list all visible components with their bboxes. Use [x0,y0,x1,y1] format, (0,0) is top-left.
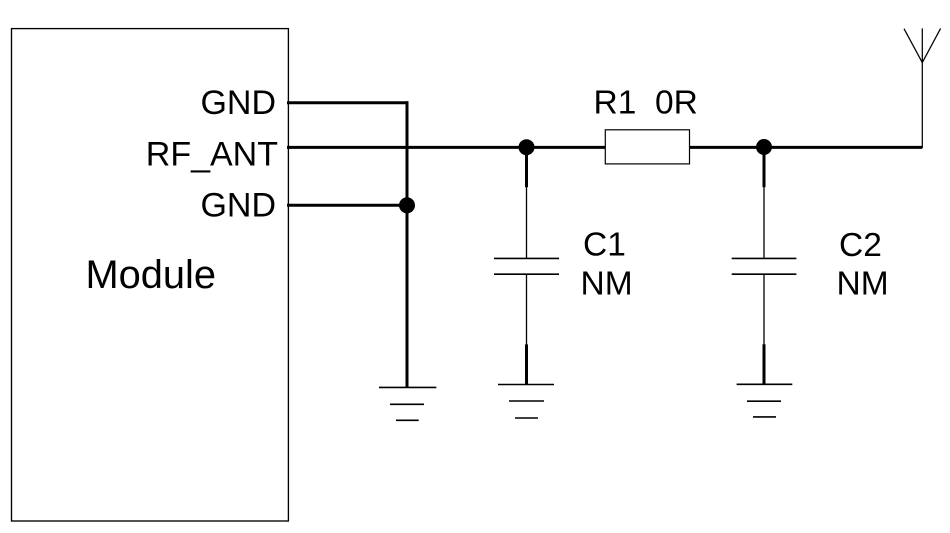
wire C1 lower stub (thick) [525,344,528,385]
svg-text:NM: NM [581,265,633,302]
capacitor C2 bottom plate [732,273,797,275]
capacitor C1 bottom plate [494,273,559,275]
svg-text:R1 0R: R1 0R [594,85,698,122]
wire GND bottom pin horizontal [287,204,407,207]
resistor R1 body [605,130,689,164]
wire C1 upper stub (thick) [525,147,528,187]
wire C2 lower thin lead [763,274,765,345]
wire C1 upper thin lead [526,186,528,258]
wire C2 upper stub (thick) [763,147,766,187]
svg-text:C2: C2 [839,227,882,264]
junction node at C1 tap [519,139,535,155]
svg-text:NM: NM [837,266,889,303]
antenna right arm [922,28,940,62]
antenna left arm [904,29,922,63]
ground symbol under GND bus [379,387,436,420]
wire C2 upper thin lead [763,186,765,258]
svg-text:GND: GND [200,84,276,122]
module U1 box [12,29,289,521]
ground symbol under C1 [498,385,554,419]
junction node at C2 tap [756,139,772,155]
capacitor C2 top plate [732,257,797,259]
wire GND vertical bus [406,101,409,387]
svg-text:C1: C1 [583,227,626,264]
ground symbol under C2 [737,384,793,417]
junction node at GND bus / bottom GND pin [399,197,415,213]
wire C1 lower thin lead [526,274,528,345]
wire RF_ANT left segment [287,146,605,149]
antenna ANT1 mast [921,28,923,148]
svg-text:RF_ANT: RF_ANT [146,135,278,173]
wire C2 lower stub (thick) [763,344,766,384]
capacitor C1 top plate [494,257,559,259]
wire RF_ANT right segment to antenna [690,146,923,149]
wire GND top pin horizontal [287,101,409,104]
svg-text:Module: Module [86,253,217,297]
svg-text:GND: GND [200,186,276,224]
